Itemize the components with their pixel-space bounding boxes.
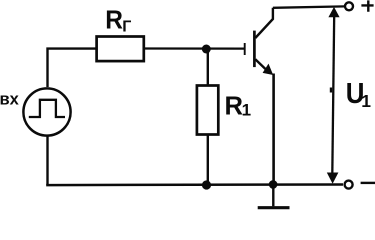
svg-text:1: 1 — [361, 91, 371, 111]
resistor R1 — [197, 86, 218, 135]
pulse waveform symbol — [29, 100, 65, 117]
label + — [361, 0, 373, 11]
wire R1 to bottom rail — [207, 135, 209, 186]
junction dot emitter / rail — [269, 180, 278, 189]
transistor Q1 base bar — [253, 31, 256, 68]
node base junction dot — [202, 45, 211, 54]
wire collector to + terminal — [273, 6, 345, 7]
svg-text:R: R — [105, 6, 123, 34]
U1 arrowhead down — [327, 173, 339, 184]
U1 shaft nub — [330, 88, 332, 93]
wire RΓ to base — [144, 47, 244, 49]
transistor Q1 collector — [255, 8, 273, 38]
ground bar — [258, 206, 290, 209]
ground stub — [272, 184, 274, 206]
terminal + (top right) — [345, 2, 353, 10]
wire node to R1 — [207, 49, 209, 86]
terminal − (bottom right) — [345, 181, 353, 189]
wire emitter to bottom rail — [272, 74, 275, 186]
resistor RΓ — [97, 37, 144, 62]
U1 arrowhead up — [328, 7, 339, 17]
junction dot R1 / rail — [202, 180, 211, 189]
svg-text:1: 1 — [242, 100, 251, 119]
transistor Q1 emitter arrowhead — [263, 64, 274, 75]
wire source bottom to rail — [46, 136, 48, 186]
wire source top to RΓ — [48, 49, 97, 87]
label − — [361, 182, 375, 184]
transistor Q1 emitter — [255, 59, 267, 70]
svg-text:вх: вх — [0, 91, 20, 109]
base wire end tick — [244, 43, 246, 55]
pulse source G1 circle — [23, 88, 70, 135]
svg-text:Г: Г — [122, 19, 131, 36]
bottom rail wire — [46, 183, 343, 186]
U1 measurement arrow shaft — [332, 15, 334, 174]
svg-text:R: R — [225, 93, 244, 121]
